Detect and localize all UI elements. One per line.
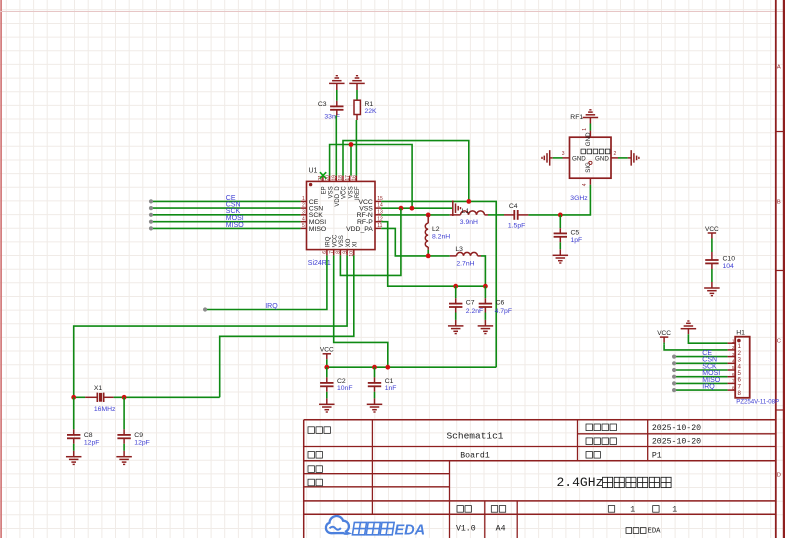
svg-text:C2: C2 <box>337 378 346 385</box>
svg-text:L3: L3 <box>455 246 463 253</box>
title cell 绘制 <box>308 466 322 473</box>
svg-text:IRQ: IRQ <box>326 236 332 247</box>
junction C6 tap <box>483 284 488 289</box>
wire MISO stub <box>151 227 301 229</box>
svg-text:C: C <box>777 339 781 345</box>
H1 pin stubs and numbers <box>728 338 742 397</box>
ground above H1 pin 1 <box>681 321 697 329</box>
wire H1 CE <box>674 356 728 358</box>
capacitor C4 <box>504 210 528 220</box>
wire U1 pin 17 up <box>350 145 352 176</box>
wire R1 to ground <box>356 83 358 100</box>
svg-text:1: 1 <box>302 196 305 202</box>
junction C5 tap <box>558 213 563 218</box>
svg-text:XO: XO <box>346 238 352 247</box>
svg-text:IRQ: IRQ <box>265 303 278 310</box>
frame zone divider B/C <box>776 270 785 272</box>
svg-text:VCC: VCC <box>657 330 671 337</box>
svg-text:C4: C4 <box>509 203 518 210</box>
wire U1 VCC pin 18 to VCC net <box>343 141 469 202</box>
svg-text:1.5pF: 1.5pF <box>508 223 525 230</box>
svg-text:C8: C8 <box>84 432 93 439</box>
inductor L3 <box>450 252 481 255</box>
wire C7 tap down <box>455 286 457 303</box>
svg-text:C3: C3 <box>318 101 327 108</box>
capacitor C5 <box>554 233 567 236</box>
svg-text:RF1: RF1 <box>570 114 583 121</box>
capacitor C10 <box>705 260 718 263</box>
svg-text:8.2nH: 8.2nH <box>432 233 450 240</box>
svg-text:10nF: 10nF <box>337 385 353 392</box>
wire VSS pin 8 <box>340 208 401 275</box>
wire H1 CSN <box>674 362 728 364</box>
wire MOSI stub <box>151 221 301 223</box>
svg-text:18: 18 <box>338 175 344 181</box>
svg-text:6: 6 <box>732 372 735 378</box>
svg-text:16MHz: 16MHz <box>94 406 116 413</box>
svg-text:D: D <box>777 473 781 479</box>
svg-text:8: 8 <box>732 385 735 391</box>
wire C6 tap down <box>484 286 486 303</box>
wire H1 MOSI <box>674 376 728 378</box>
junction VSS pin20 drop <box>410 206 415 211</box>
title cell 创建日期 <box>586 424 616 431</box>
svg-text:B: B <box>777 200 781 206</box>
svg-text:U1: U1 <box>309 167 318 174</box>
svg-text:2.2nF: 2.2nF <box>466 308 483 315</box>
node IRQ stub end dot <box>203 307 207 311</box>
node net stub end dot <box>149 220 153 224</box>
svg-text:1pF: 1pF <box>571 237 583 244</box>
svg-text:1: 1 <box>672 505 677 514</box>
wire L1 to C4 <box>488 214 504 216</box>
ground under C5 <box>553 255 569 263</box>
frame zone divider C/D <box>776 409 785 411</box>
wire R1 to U1 pin 16 <box>355 115 358 176</box>
svg-text:P1: P1 <box>652 451 662 460</box>
svg-text:VCC: VCC <box>320 347 334 354</box>
ground above RF1 pin 1 <box>583 110 599 118</box>
svg-text:GND: GND <box>572 155 586 162</box>
connector H1 body <box>735 337 750 398</box>
svg-text:C9: C9 <box>134 432 143 439</box>
frame zone divider A/B <box>776 131 785 133</box>
title cell 板子 <box>308 452 322 459</box>
title cell 尺寸 <box>491 506 505 513</box>
node net stub end dot <box>149 213 153 217</box>
wire H1 IRQ <box>674 389 728 391</box>
svg-text:IREF: IREF <box>355 186 361 200</box>
svg-text:5: 5 <box>302 223 305 229</box>
svg-text:33nF: 33nF <box>324 114 340 121</box>
inductor L1 <box>450 211 488 215</box>
wire RF1 pin 4 <box>589 178 591 184</box>
capacitor C3 <box>330 106 343 109</box>
ground right of RF1 pin 2 <box>631 150 639 166</box>
wire C6 to ground <box>484 307 486 326</box>
H1 pin 1 marker dot <box>737 339 741 343</box>
svg-text:8: 8 <box>738 390 742 397</box>
node net stub end dot <box>149 199 153 203</box>
svg-text:C5: C5 <box>571 230 580 237</box>
wire VCC pin 15 <box>381 201 496 367</box>
svg-text:4: 4 <box>582 183 588 186</box>
capacitor C8 <box>67 435 80 438</box>
wire C10 top <box>711 239 713 261</box>
svg-text:9: 9 <box>342 251 348 254</box>
wire C10 to ground <box>711 263 713 288</box>
capacitor C2 <box>320 383 333 386</box>
wire C1 top <box>374 367 376 383</box>
title block table <box>304 420 776 538</box>
wire L3 to RF-P net <box>481 256 485 286</box>
wire XI pin 10 <box>220 255 354 397</box>
svg-text:104: 104 <box>723 263 735 270</box>
title cell 更新日期 <box>586 438 616 445</box>
svg-text:12pF: 12pF <box>134 440 150 447</box>
antenna RF1 body <box>570 137 612 178</box>
ground under C8 <box>66 457 82 465</box>
wire IRQ pin 6 <box>205 255 327 309</box>
node net stub end dot <box>672 388 676 392</box>
node net stub end dot <box>672 368 676 372</box>
sheet frame right inner border <box>775 0 777 538</box>
title cell 原理图 <box>308 427 330 434</box>
wire CE stub <box>151 200 301 202</box>
svg-text:A: A <box>777 65 781 71</box>
ground under C1 <box>367 404 383 412</box>
svg-text:C10: C10 <box>723 255 736 262</box>
wire C8 to ground <box>73 438 75 456</box>
wire C5 to ground <box>559 237 561 256</box>
U1 pin numbers <box>302 175 383 257</box>
svg-text:8: 8 <box>336 251 342 254</box>
wire VDD_PA pin 11 <box>381 228 450 256</box>
wire C8 top <box>73 397 75 435</box>
svg-text:2.7nH: 2.7nH <box>456 260 474 267</box>
svg-text:H1: H1 <box>736 330 745 337</box>
wire C1 to ground <box>374 386 376 404</box>
title cell 版本 <box>457 506 471 513</box>
sheet frame left border <box>0 0 2 538</box>
wire ground to H1 pin 1 <box>688 329 727 344</box>
vcc flag H1 <box>657 330 671 343</box>
svg-text:1: 1 <box>582 128 588 131</box>
svg-text:2: 2 <box>614 151 617 157</box>
ground above C3 <box>329 76 345 84</box>
ground under C6 <box>478 326 494 334</box>
wire VCC to H1 pin 2 <box>664 343 728 350</box>
title cell 审阅 <box>308 479 322 486</box>
svg-text:VDD_D: VDD_D <box>335 186 341 207</box>
svg-text:IRQ: IRQ <box>702 384 715 391</box>
inductor L2 <box>425 215 428 256</box>
junction pins 17/20 net <box>349 142 354 147</box>
sheet frame top border <box>0 11 785 13</box>
svg-text:3: 3 <box>732 352 735 358</box>
svg-text:C1: C1 <box>385 378 394 385</box>
wire C3 to ground <box>336 83 338 106</box>
junction X1/C9 <box>122 395 127 400</box>
svg-text:X1: X1 <box>94 385 103 392</box>
junction C1 tap <box>372 365 377 370</box>
wire VCC pin 7 <box>334 255 388 367</box>
svg-text:XI: XI <box>353 241 359 247</box>
wire U1 VSS pins 20,17 to VSS net <box>330 145 413 209</box>
RF1 chinese name <box>581 149 610 154</box>
title cell page 1 of 1 <box>608 505 677 514</box>
svg-text:VSS: VSS <box>339 235 345 247</box>
wire C2 top <box>326 367 328 383</box>
wire C4 to antenna <box>528 185 590 215</box>
capacitor C9 <box>117 435 130 438</box>
ground under C2 <box>319 404 335 412</box>
svg-text:2025-10-20: 2025-10-20 <box>652 424 701 433</box>
op-amp U1 body <box>307 181 376 249</box>
node net stub end dot <box>672 381 676 385</box>
wire RF1 pin 3 <box>550 157 570 159</box>
wire C2 to ground <box>326 386 328 404</box>
svg-text:VSS: VSS <box>348 186 354 198</box>
capacitor C1 <box>368 383 381 386</box>
svg-text:VCC: VCC <box>332 234 338 247</box>
svg-text:C6: C6 <box>496 300 505 307</box>
svg-text:7: 7 <box>732 379 735 385</box>
wire C3 to U1 pin 19 <box>335 110 338 176</box>
svg-text:MISO: MISO <box>226 222 244 229</box>
wire RF1 pin 2 <box>611 157 631 159</box>
svg-text:EP: EP <box>322 186 328 194</box>
svg-text:R1: R1 <box>365 101 374 108</box>
svg-text:EDA: EDA <box>395 522 426 538</box>
wire VCC rail <box>327 366 496 368</box>
junction VCC/C2 <box>324 365 329 370</box>
capacitor C7 <box>449 304 462 307</box>
node net stub end dot <box>672 375 676 379</box>
vcc flag above C2 <box>320 347 334 360</box>
junction pin7 drop <box>385 365 390 370</box>
capacitor C6 <box>479 304 492 307</box>
svg-text:Schematic1: Schematic1 <box>446 430 503 441</box>
svg-text:C7: C7 <box>466 300 475 307</box>
svg-text:1: 1 <box>732 338 735 344</box>
svg-text:12pF: 12pF <box>84 440 100 447</box>
svg-text:1nF: 1nF <box>385 385 397 392</box>
wire crystal left <box>74 396 98 398</box>
junction VCC pin18 drop <box>466 199 471 204</box>
title text 2.4GHz wireless module <box>557 475 672 490</box>
svg-text:A4: A4 <box>496 525 506 534</box>
ground under C9 <box>116 457 132 465</box>
svg-text:3: 3 <box>302 209 305 215</box>
node net stub end dot <box>672 361 676 365</box>
svg-text:2: 2 <box>302 203 305 209</box>
wire C9 to ground <box>123 438 125 456</box>
svg-text:3GHz: 3GHz <box>570 195 588 202</box>
title cell 图页 <box>586 452 600 459</box>
U1 pin stubs <box>301 176 382 256</box>
svg-text:EDA: EDA <box>648 528 662 536</box>
svg-text:6: 6 <box>322 251 328 254</box>
wire SCK stub <box>151 214 301 216</box>
wire crystal right <box>104 396 220 398</box>
ground on VSS pin 14 wire <box>453 200 461 216</box>
svg-text:17: 17 <box>345 175 351 181</box>
svg-text:GND: GND <box>595 155 609 162</box>
sheet frame right outer border <box>783 0 785 538</box>
wire C9 top <box>123 397 125 435</box>
svg-text:19: 19 <box>332 175 338 181</box>
ground above R1 <box>349 76 365 84</box>
wire RF-N pin 13 <box>381 214 450 216</box>
svg-text:4: 4 <box>732 359 735 365</box>
node net stub end dot <box>149 226 153 230</box>
junction VSS pin8 riser <box>399 206 404 211</box>
svg-text:2.4GHz: 2.4GHz <box>557 475 604 490</box>
node net stub end dot <box>149 206 153 210</box>
node net stub end dot <box>672 355 676 359</box>
svg-text:L2: L2 <box>432 226 440 233</box>
svg-text:3.9nH: 3.9nH <box>460 219 478 226</box>
wire H1 MISO <box>674 382 728 384</box>
wire VCC flag down <box>326 359 328 367</box>
resistor R1 <box>354 100 360 114</box>
wire H1 SCK <box>674 369 728 371</box>
RF1 pin 1 marker circle <box>589 161 592 164</box>
svg-text:VDD_PA: VDD_PA <box>346 226 373 233</box>
junction L2 bottom <box>426 254 431 259</box>
ground left of RF1 pin 3 <box>542 150 550 166</box>
svg-text:7: 7 <box>329 251 335 254</box>
wire C7 to ground <box>455 307 457 326</box>
junction C7 tap <box>453 284 458 289</box>
U1 pin names <box>309 186 373 248</box>
junction L2 top <box>426 213 431 218</box>
svg-text:3: 3 <box>562 151 565 157</box>
wire CSN stub <box>151 207 301 209</box>
junction X1/C8 <box>71 395 76 400</box>
wire VSS pin 14 <box>381 207 452 209</box>
svg-text:22K: 22K <box>365 108 378 115</box>
vcc flag above C10 <box>705 226 719 239</box>
svg-text:VSS: VSS <box>328 186 334 198</box>
svg-text:4: 4 <box>302 216 305 222</box>
no-connect X on EP pin <box>320 172 326 178</box>
ground under C7 <box>448 326 464 334</box>
svg-text:VCC: VCC <box>705 226 719 233</box>
svg-text:5: 5 <box>732 365 735 371</box>
wire RF-P pin 12 <box>381 222 485 287</box>
svg-text:2: 2 <box>732 345 735 351</box>
svg-text:V1.0: V1.0 <box>456 525 476 534</box>
svg-text:VCC: VCC <box>342 186 348 199</box>
ground under C10 <box>704 288 720 296</box>
svg-text:L1: L1 <box>462 208 470 215</box>
crystal X1 <box>97 393 103 402</box>
title cell 嘉立创EDA small <box>626 528 661 536</box>
svg-text:1: 1 <box>630 505 635 514</box>
svg-text:16: 16 <box>352 175 358 181</box>
svg-text:GND: GND <box>585 132 592 146</box>
wire XO pin 9 <box>74 255 347 397</box>
svg-text:PZ254V-11-08P: PZ254V-11-08P <box>736 398 779 405</box>
svg-text:MISO: MISO <box>309 226 326 233</box>
JLCEDA logo <box>326 516 425 538</box>
svg-text:2025-10-20: 2025-10-20 <box>652 438 701 447</box>
svg-text:4.7pF: 4.7pF <box>495 308 512 315</box>
svg-text:Board1: Board1 <box>460 450 490 460</box>
wire C5 tap down <box>559 215 561 234</box>
wire RF1 pin 1 <box>589 118 591 138</box>
